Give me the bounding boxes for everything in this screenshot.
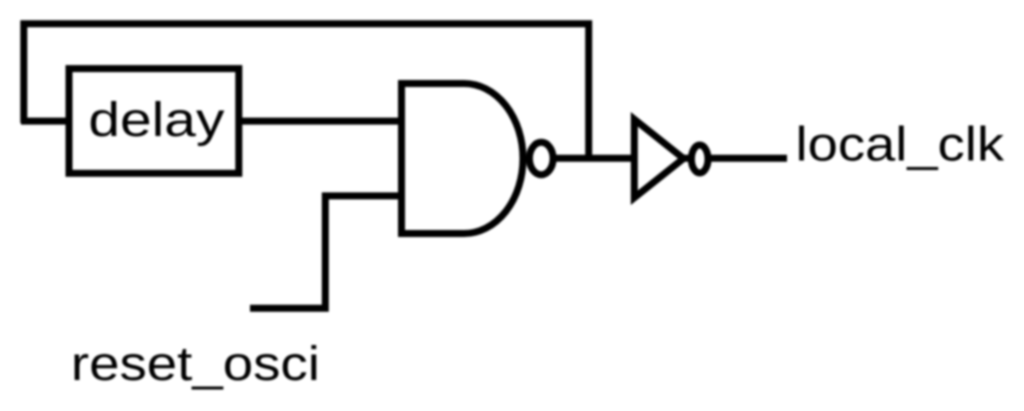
- svg-text:local_clk: local_clk: [796, 119, 1006, 172]
- svg-text:reset_osci: reset_osci: [71, 338, 320, 391]
- nand gate U1 body: [402, 84, 524, 234]
- inverter U2 triangle: [634, 119, 683, 197]
- nand gate U1 output bubble: [529, 142, 553, 174]
- delay box D1: [69, 69, 239, 174]
- wire: feedback loop (left vertical, top horizontal, right vertical): [24, 24, 589, 159]
- wire: NAND output to inverter and out to label: [548, 155, 787, 162]
- wire: delay input stub + delay output to NAND top input: [21, 118, 403, 125]
- svg-text:delay: delay: [88, 94, 224, 147]
- wire: reset_osci to NAND bottom input: [250, 196, 403, 308]
- inverter U2 output bubble: [691, 145, 708, 173]
